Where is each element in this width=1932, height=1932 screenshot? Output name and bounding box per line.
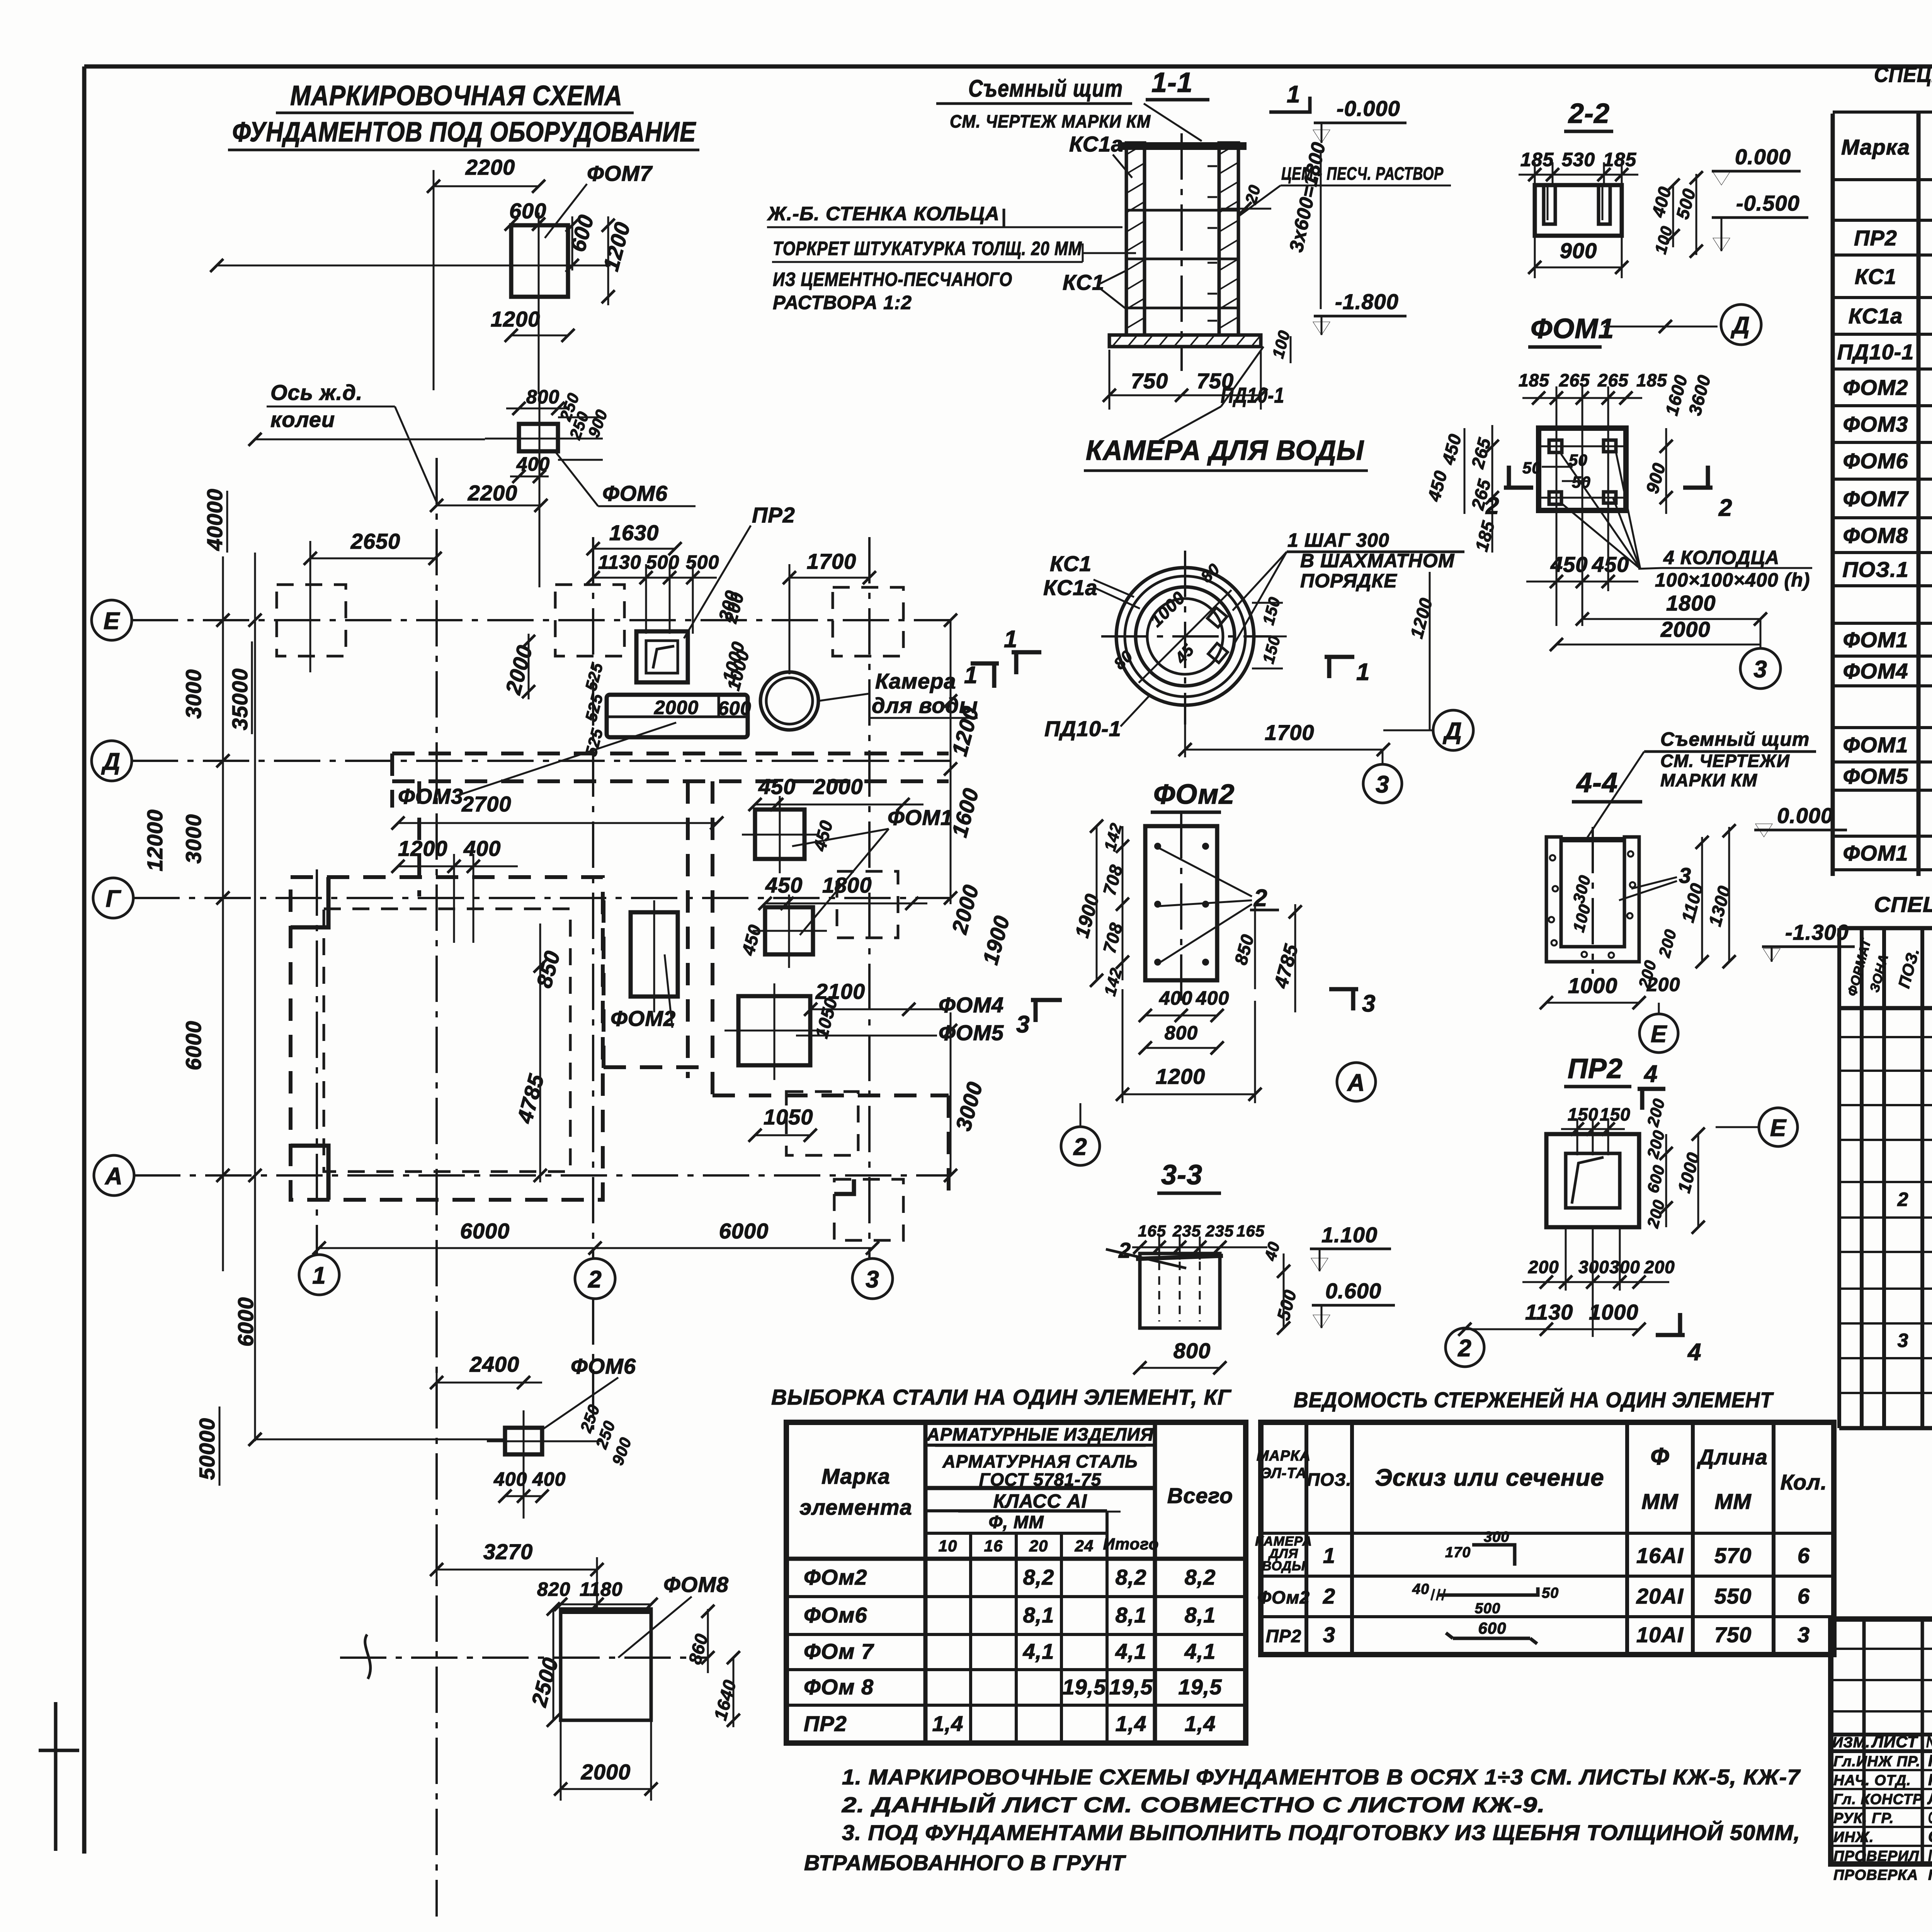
svg-text:1-1: 1-1 (1151, 67, 1193, 98)
axis circle 2 (1061, 1127, 1100, 1165)
svg-text:265: 265 (1559, 370, 1590, 390)
svg-text:750: 750 (1714, 1622, 1752, 1647)
svg-text:4: 4 (1643, 1061, 1658, 1087)
embedded squares (1207, 608, 1227, 628)
section cut marks 1Т / Т1 (1012, 650, 1041, 655)
svg-text:2: 2 (1323, 1584, 1335, 1608)
svg-text:1630: 1630 (609, 520, 659, 545)
svg-text:ПРОВЕРКА: ПРОВЕРКА (1833, 1867, 1918, 1883)
svg-text:1180: 1180 (580, 1578, 623, 1600)
chain ticks (216, 614, 230, 627)
svg-text:2000: 2000 (654, 697, 699, 718)
axis circle 3 (1760, 619, 1762, 648)
svg-text:ФОм6: ФОм6 (804, 1603, 867, 1627)
svg-text:2000: 2000 (813, 774, 863, 799)
svg-text:ФОМ1: ФОМ1 (1843, 733, 1908, 757)
svg-text:ФОМ8: ФОМ8 (1843, 523, 1908, 548)
wall left (hatched) (1126, 143, 1145, 335)
ФОМ7 plan square (511, 225, 568, 297)
connector line (255, 1439, 505, 1440)
U-section (1546, 837, 1639, 962)
svg-text:ФОМ6: ФОМ6 (1843, 449, 1908, 473)
table grid (1833, 112, 1932, 876)
svg-text:550: 550 (1714, 1584, 1752, 1608)
ФОМ6 plan square (upper-left) (519, 424, 558, 451)
svg-text:ММ: ММ (1714, 1489, 1752, 1514)
svg-text:235: 235 (1172, 1222, 1201, 1240)
svg-text:ФОМ6: ФОМ6 (602, 481, 668, 505)
svg-text:ФОМ1: ФОМ1 (1531, 313, 1614, 344)
svg-text:3270: 3270 (483, 1539, 533, 1564)
svg-text:3: 3 (1798, 1622, 1810, 1647)
svg-text:530: 530 (1562, 149, 1595, 170)
concrete dots (1550, 855, 1555, 861)
svg-text:СПЕЦИФИКАЦИЯ ЭЛЕМЕНТОВ МОН: СПЕЦИФИКАЦИЯ ЭЛЕМЕНТОВ МОНОЛИТНОЙ Ж.-Б. … (1874, 892, 1932, 917)
svg-text:6: 6 (1798, 1543, 1810, 1568)
svg-text:ГАЛЬПЕРИНА: ГАЛЬПЕРИНА (1928, 1846, 1932, 1864)
svg-text:20: 20 (1029, 1537, 1048, 1555)
svg-text:750: 750 (1131, 369, 1168, 393)
svg-text:2: 2 (1073, 1134, 1087, 1160)
svg-text:ПД10-1: ПД10-1 (1044, 716, 1121, 741)
dashed square axis3/Г (837, 871, 898, 938)
svg-text:2: 2 (1485, 493, 1499, 519)
svg-text:2200: 2200 (465, 155, 515, 179)
svg-text:1800: 1800 (822, 873, 872, 897)
svg-text:ФОМ2: ФОМ2 (611, 1006, 676, 1031)
svg-text:Г: Г (105, 886, 121, 912)
svg-text:2-2: 2-2 (1568, 98, 1610, 129)
svg-text:ПР2: ПР2 (804, 1711, 847, 1736)
building A corner notches (291, 877, 328, 927)
section marks 2-2 (1504, 486, 1533, 490)
svg-text:1: 1 (1356, 659, 1370, 685)
svg-text:Кол.: Кол. (1781, 1470, 1827, 1494)
svg-text:Итого: Итого (1103, 1535, 1159, 1553)
svg-text:ФУНДАМЕНТОВ ПОД ОБОРУДОВАНИЕ: ФУНДАМЕНТОВ ПОД ОБОРУДОВАНИЕ (232, 117, 696, 148)
square (1539, 428, 1626, 510)
svg-text:ИНЖ.: ИНЖ. (1833, 1829, 1874, 1845)
inner grid (1556, 428, 1558, 510)
svg-text:Е: Е (104, 608, 120, 634)
svg-text:ПР2: ПР2 (752, 503, 795, 527)
anchor wells (1549, 440, 1562, 452)
dashed column square axis2/Е (555, 585, 624, 656)
svg-text:ПОРЯДКЕ: ПОРЯДКЕ (1300, 570, 1397, 592)
removable top plate (1118, 142, 1247, 150)
svg-text:300: 300 (1609, 1257, 1640, 1277)
svg-text:16АI: 16АI (1636, 1543, 1684, 1568)
svg-text:570: 570 (1714, 1543, 1752, 1568)
svg-text:1700: 1700 (1265, 720, 1315, 745)
svg-text:20АI: 20АI (1636, 1584, 1684, 1608)
svg-text:6000: 6000 (460, 1219, 510, 1243)
svg-text:1: 1 (964, 662, 978, 689)
axis 2 vertical dash-dot (592, 537, 594, 1259)
svg-text:АРМАТУРНЫЕ ИЗДЕЛИЯ: АРМАТУРНЫЕ ИЗДЕЛИЯ (927, 1424, 1154, 1444)
svg-text:ПД10-1: ПД10-1 (1837, 340, 1914, 364)
svg-text:ИЗМ.: ИЗМ. (1832, 1735, 1870, 1751)
dashed square middle (786, 1092, 858, 1155)
anchor slots (1544, 185, 1555, 224)
svg-text:ВЫБОРКА СТАЛИ НА ОДИН ЭЛЕМ: ВЫБОРКА СТАЛИ НА ОДИН ЭЛЕМЕНТ, КГ (771, 1385, 1232, 1409)
svg-text:200: 200 (1528, 1257, 1559, 1277)
svg-text:50: 50 (1542, 1585, 1559, 1601)
svg-text:Длина: Длина (1697, 1445, 1767, 1469)
svg-text:100×100×400 (h): 100×100×400 (h) (1655, 569, 1810, 591)
svg-text:ФОМ6: ФОМ6 (571, 1354, 636, 1378)
axis circle Е (1759, 1108, 1798, 1146)
body (1140, 1253, 1220, 1328)
svg-text:ГОСТ 5781-75: ГОСТ 5781-75 (979, 1469, 1102, 1490)
svg-text:А: А (1347, 1070, 1365, 1096)
svg-text:800: 800 (1173, 1338, 1211, 1363)
svg-text:1: 1 (1323, 1543, 1335, 1568)
building wall dashed band (Д axis) upper (392, 752, 949, 755)
axis circle А (94, 1155, 134, 1196)
sheet edge second line lower-left (54, 1702, 58, 1851)
svg-text:ФОМ8: ФОМ8 (663, 1572, 729, 1597)
svg-text:1200: 1200 (1156, 1064, 1206, 1088)
dashed verticals right of ФОМ2 room (686, 781, 690, 1078)
svg-text:3: 3 (1362, 990, 1376, 1017)
axis circle Д right (1433, 710, 1473, 750)
svg-text:24: 24 (1075, 1537, 1094, 1555)
svg-text:№ДОКУМЕНТА: №ДОКУМЕНТА (1926, 1733, 1932, 1751)
axis circle Д (92, 741, 132, 781)
svg-text:ФОм 7: ФОм 7 (804, 1639, 874, 1663)
building A inner dashed rect (324, 909, 570, 1172)
svg-text:Д: Д (1442, 718, 1462, 745)
svg-text:ИЗ ЦЕМЕНТНО-ПЕСЧАНОГО: ИЗ ЦЕМЕНТНО-ПЕСЧАНОГО (773, 269, 1012, 290)
svg-text:2200: 2200 (468, 481, 518, 505)
svg-text:19,5: 19,5 (1063, 1675, 1106, 1699)
axis 1 vertical dash-dot (316, 869, 318, 1255)
svg-text:4-4: 4-4 (1576, 767, 1618, 798)
svg-text:3: 3 (1016, 1011, 1030, 1038)
svg-text:МАРКИРОВОЧНАЯ СХЕМА: МАРКИРОВОЧНАЯ СХЕМА (290, 80, 622, 111)
svg-text:1: 1 (1287, 81, 1300, 108)
axis line А (134, 1174, 951, 1177)
svg-text:6: 6 (1798, 1584, 1810, 1608)
right vertical dim chain of plan (950, 620, 952, 904)
svg-text:400: 400 (532, 1468, 566, 1490)
svg-text:Марка: Марка (1841, 135, 1910, 159)
svg-text:-1.800: -1.800 (1335, 289, 1399, 314)
svg-text:КАМЕРА ДЛЯ ВОДЫ: КАМЕРА ДЛЯ ВОДЫ (1086, 435, 1364, 466)
svg-text:2700: 2700 (461, 792, 512, 816)
svg-text:800: 800 (526, 386, 560, 408)
svg-text:600: 600 (718, 697, 751, 719)
svg-text:400: 400 (1196, 987, 1229, 1009)
svg-text:ФОм 8: ФОм 8 (804, 1675, 874, 1699)
svg-text:Всего: Всего (1167, 1483, 1233, 1508)
svg-text:4 КОЛОДЦА: 4 КОЛОДЦА (1663, 547, 1779, 568)
svg-text:2: 2 (1458, 1335, 1471, 1362)
svg-text:19,5: 19,5 (1179, 1675, 1222, 1699)
svg-text:3000: 3000 (181, 814, 206, 864)
svg-text:4: 4 (1687, 1339, 1701, 1366)
svg-text:2000: 2000 (1660, 617, 1711, 641)
svg-text:колеи: колеи (270, 407, 335, 432)
ФОМ1 plan square 2 (765, 907, 813, 954)
axis circle Д right of title (1721, 304, 1761, 345)
svg-text:200: 200 (1644, 1257, 1675, 1277)
svg-text:Ф: Ф (1650, 1443, 1669, 1470)
dashed column square axis3/Е (833, 587, 903, 656)
Камера circle in plan (760, 672, 818, 730)
ФОМ1 plan square 1 (755, 810, 804, 859)
svg-text:Ж.-Б. СТЕНКА КОЛЬЦА: Ж.-Б. СТЕНКА КОЛЬЦА (767, 203, 1000, 224)
svg-text:40000: 40000 (202, 488, 227, 551)
svg-text:КС1а: КС1а (1069, 132, 1123, 156)
svg-text:19,5: 19,5 (1109, 1675, 1153, 1699)
svg-text:МАРКА: МАРКА (1257, 1448, 1311, 1464)
svg-text:ФОм2: ФОм2 (804, 1565, 867, 1589)
svg-text:300: 300 (1578, 1257, 1609, 1277)
svg-text:40: 40 (1412, 1581, 1429, 1597)
svg-text:Съемный щит: Съемный щит (968, 75, 1123, 102)
svg-text:185: 185 (1636, 370, 1667, 390)
rebar dots (1154, 843, 1161, 850)
svg-text:Эскиз или сечение: Эскиз или сечение (1375, 1464, 1604, 1491)
svg-text:200: 200 (1646, 974, 1680, 995)
axis circle А (1337, 1063, 1376, 1101)
svg-text:ПР2: ПР2 (1568, 1053, 1623, 1084)
svg-text:1800: 1800 (1666, 591, 1716, 615)
svg-text:А: А (104, 1163, 123, 1190)
svg-text:8,1: 8,1 (1185, 1603, 1216, 1627)
ФОМ3 rectangle (607, 695, 748, 737)
svg-text:12000: 12000 (143, 809, 167, 871)
axis line Г (133, 897, 951, 899)
svg-text:ФОМ5: ФОМ5 (1843, 764, 1908, 788)
svg-text:600: 600 (1478, 1619, 1506, 1637)
svg-text:ФОМ1: ФОМ1 (1843, 841, 1908, 865)
svg-text:СИНЕЛЬНИКОВА: СИНЕЛЬНИКОВА (1928, 1808, 1932, 1827)
svg-text:500: 500 (1475, 1600, 1500, 1617)
svg-text:ПР2: ПР2 (1266, 1626, 1301, 1646)
axis bottom circle 2 (575, 1259, 615, 1299)
svg-text:400: 400 (1159, 987, 1192, 1009)
svg-text:Гл. КОНСТР.: Гл. КОНСТР. (1833, 1791, 1925, 1808)
svg-text:КС1: КС1 (1855, 264, 1896, 289)
svg-text:КС1: КС1 (1050, 551, 1092, 576)
svg-text:0.600: 0.600 (1325, 1279, 1381, 1303)
ФОМ4/5 plan square (738, 996, 810, 1065)
svg-text:Е: Е (1651, 1021, 1667, 1048)
svg-text:450: 450 (758, 774, 796, 799)
svg-text:Д: Д (1730, 312, 1750, 339)
svg-text:500: 500 (646, 551, 679, 573)
svg-text:1,4: 1,4 (1185, 1711, 1216, 1736)
svg-text:0.000: 0.000 (1735, 145, 1791, 169)
svg-text:1200: 1200 (398, 836, 448, 861)
svg-text:НАЗАРОВ: НАЗАРОВ (1928, 1752, 1932, 1770)
svg-text:235: 235 (1205, 1222, 1234, 1240)
svg-text:50: 50 (1522, 459, 1541, 477)
svg-text:3: 3 (1898, 1330, 1909, 1351)
vertical dim chain line 2 (254, 553, 256, 1441)
svg-text:ПРОВЕРИЛ: ПРОВЕРИЛ (1833, 1848, 1919, 1864)
axis circle 3 below (1363, 764, 1402, 803)
svg-text:400: 400 (493, 1468, 527, 1490)
wall right (hatched) (1219, 143, 1238, 335)
svg-text:Ф, ММ: Ф, ММ (988, 1512, 1044, 1532)
svg-text:1,4: 1,4 (932, 1711, 964, 1736)
svg-text:ГАЛЬПЕРИНА: ГАЛЬПЕРИНА (1928, 1867, 1932, 1883)
axis circle 2 (1446, 1328, 1484, 1367)
svg-text:ММ: ММ (1641, 1489, 1679, 1514)
ring joint lines (1126, 209, 1238, 212)
svg-text:1050: 1050 (764, 1105, 813, 1129)
ПР2 plan square (636, 631, 688, 682)
svg-text:Съемный щит: Съемный щит (1660, 728, 1810, 750)
svg-text:2: 2 (1897, 1189, 1909, 1210)
axis circle Г (93, 878, 133, 918)
svg-text:1700: 1700 (807, 549, 857, 573)
svg-text:ПОЗ.: ПОЗ. (1307, 1469, 1351, 1490)
svg-text:4,1: 4,1 (1115, 1639, 1147, 1663)
svg-text:35000: 35000 (228, 668, 252, 730)
svg-text:1200: 1200 (491, 307, 541, 331)
svg-text:1130: 1130 (598, 551, 641, 573)
svg-text:400: 400 (463, 836, 501, 861)
svg-text:СМ. ЧЕРТЕЖИ: СМ. ЧЕРТЕЖИ (1660, 751, 1790, 771)
svg-text:АРМАТУРНАЯ СТАЛЬ: АРМАТУРНАЯ СТАЛЬ (942, 1451, 1138, 1471)
axis line Е (132, 619, 951, 621)
svg-text:ЛИСТ: ЛИСТ (1871, 1733, 1918, 1751)
svg-text:ФОМ3: ФОМ3 (1843, 412, 1908, 436)
svg-text:ВОДЫ: ВОДЫ (1262, 1559, 1305, 1573)
axis bottom circle 3 (852, 1259, 893, 1299)
svg-text:500: 500 (686, 551, 719, 573)
svg-text:ФОМ4: ФОМ4 (1843, 659, 1908, 683)
svg-text:3: 3 (1753, 656, 1767, 683)
square (1546, 1134, 1639, 1227)
svg-text:ФОМ4: ФОМ4 (939, 993, 1004, 1017)
svg-text:820: 820 (537, 1578, 570, 1600)
axis line Д (132, 760, 951, 762)
svg-text:900: 900 (1560, 238, 1597, 263)
svg-text:РЫБКИНА: РЫБКИНА (1928, 1770, 1932, 1789)
svg-text:ВТРАМБОВАННОГО В ГРУНТ: ВТРАМБОВАННОГО В ГРУНТ (804, 1850, 1126, 1875)
svg-text:КЛАСС АI: КЛАСС АI (993, 1490, 1087, 1512)
railway axis (Ось ж.д. колеи) (435, 458, 438, 1917)
bottom slab (1109, 335, 1261, 347)
svg-text:элемента: элемента (799, 1495, 912, 1519)
svg-text:6000: 6000 (719, 1219, 769, 1243)
vertical dim chain line 1 (222, 556, 224, 1271)
svg-text:ПОЗ.1: ПОЗ.1 (1842, 557, 1909, 582)
svg-text:3: 3 (866, 1266, 879, 1293)
svg-text:2. ДАННЫЙ ЛИСТ СМ. СОВМЕСТН: 2. ДАННЫЙ ЛИСТ СМ. СОВМЕСТНО С ЛИСТОМ КЖ… (842, 1793, 1545, 1817)
svg-text:8,1: 8,1 (1023, 1603, 1054, 1627)
svg-text:2400: 2400 (469, 1352, 520, 1376)
svg-text:185: 185 (1520, 149, 1554, 170)
svg-text:170: 170 (1445, 1544, 1471, 1561)
body (1535, 185, 1622, 236)
svg-text:1. МАРКИРОВОЧНЫЕ СХЕМЫ ФУНД: 1. МАРКИРОВОЧНЫЕ СХЕМЫ ФУНДАМЕНТОВ В ОСЯ… (842, 1765, 1801, 1789)
svg-text:3000: 3000 (181, 669, 206, 719)
svg-text:450: 450 (765, 873, 803, 897)
svg-text:ФОм2: ФОм2 (1153, 779, 1235, 810)
svg-text:8,2: 8,2 (1185, 1565, 1216, 1589)
svg-text:1: 1 (1004, 626, 1017, 653)
svg-text:4,1: 4,1 (1184, 1639, 1216, 1663)
svg-text:-0.000: -0.000 (1337, 96, 1400, 121)
svg-text:Гл.ИНЖ ПР.: Гл.ИНЖ ПР. (1833, 1753, 1920, 1770)
svg-text:ФОМ7: ФОМ7 (587, 161, 653, 185)
svg-text:3: 3 (1323, 1622, 1335, 1647)
svg-text:150: 150 (1568, 1104, 1599, 1124)
svg-text:Камера: Камера (875, 669, 956, 693)
svg-text:50000: 50000 (195, 1418, 219, 1480)
svg-text:Марка: Марка (821, 1464, 890, 1488)
axis bottom circle 1 (299, 1255, 339, 1295)
svg-text:16: 16 (984, 1537, 1003, 1555)
svg-text:СПЕЦИФИКАЦИЯ К МАРКИРОВОЧНОЙ: СПЕЦИФИКАЦИЯ К МАРКИРОВОЧНОЙ СХЕМЕ, РАСП… (1874, 62, 1932, 87)
svg-text:2000: 2000 (581, 1760, 631, 1784)
svg-text:8,2: 8,2 (1116, 1565, 1147, 1589)
diameter 45deg (1139, 590, 1231, 683)
sheet border left (82, 66, 87, 1854)
svg-text:1000: 1000 (1589, 1300, 1639, 1324)
svg-text:185: 185 (1603, 149, 1637, 170)
svg-text:1: 1 (312, 1262, 326, 1289)
svg-text:10: 10 (939, 1537, 957, 1555)
svg-text:4,1: 4,1 (1023, 1639, 1054, 1663)
svg-text:6000: 6000 (233, 1297, 258, 1347)
svg-text:265: 265 (1597, 370, 1629, 390)
svg-text:-0.500: -0.500 (1736, 191, 1800, 215)
svg-text:10АI: 10АI (1636, 1622, 1684, 1647)
svg-text:ФОМ1: ФОМ1 (888, 805, 953, 830)
axis 3 vertical dash-dot (868, 537, 871, 1259)
mark 4 bottom (1656, 1333, 1685, 1337)
svg-text:6000: 6000 (181, 1020, 206, 1070)
section marks 3 (1031, 998, 1062, 1002)
svg-text:8,2: 8,2 (1023, 1565, 1054, 1589)
svg-text:МАРКИ КМ: МАРКИ КМ (1660, 770, 1758, 790)
svg-text:0.000: 0.000 (1777, 803, 1833, 828)
center lines (340, 1656, 707, 1659)
svg-text:КС1: КС1 (1063, 270, 1104, 294)
building A outer dashed rect (291, 877, 603, 1200)
axis circle Е (1639, 1014, 1678, 1053)
svg-text:ПР2: ПР2 (1854, 226, 1897, 250)
center axis of shaft (1180, 133, 1183, 371)
svg-text:РУК. ГР.: РУК. ГР. (1833, 1810, 1894, 1827)
svg-text:КС1а: КС1а (1043, 575, 1097, 600)
svg-text:1,4: 1,4 (1116, 1711, 1147, 1736)
svg-text:ОВЧАРОВА: ОВЧАРОВА (1928, 1827, 1932, 1845)
svg-text:2: 2 (1118, 1238, 1131, 1262)
svg-text:2: 2 (1718, 495, 1732, 521)
svg-text:РАСТВОРА 1:2: РАСТВОРА 1:2 (773, 292, 912, 313)
rebar ticks right wall (1207, 166, 1217, 321)
svg-text:СМ. ЧЕРТЕЖ МАРКИ КМ: СМ. ЧЕРТЕЖ МАРКИ КМ (950, 111, 1151, 131)
svg-text:ТОРКРЕТ ШТУКАТУРКА ТОЛЩ. 20: ТОРКРЕТ ШТУКАТУРКА ТОЛЩ. 20 ММ (773, 238, 1082, 259)
svg-text:150: 150 (1600, 1104, 1631, 1124)
svg-text:ФОМ7: ФОМ7 (1843, 486, 1909, 511)
dashed square axis3/А (834, 1179, 903, 1240)
svg-text:Е: Е (1770, 1115, 1787, 1141)
svg-text:НАЧ. ОТД.: НАЧ. ОТД. (1833, 1772, 1911, 1789)
svg-text:300: 300 (1484, 1529, 1509, 1545)
svg-text:ВЕДОМОСТЬ СТЕРЖЕНЕЙ НА ОДИН: ВЕДОМОСТЬ СТЕРЖЕНЕЙ НА ОДИН ЭЛЕМЕНТ (1294, 1388, 1774, 1412)
svg-text:3: 3 (1376, 771, 1389, 798)
